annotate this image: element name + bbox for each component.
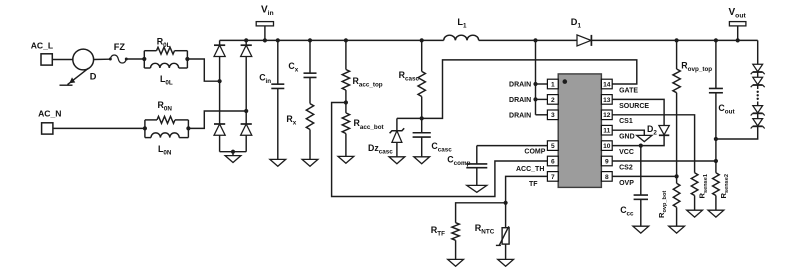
svg-text:FZ: FZ (114, 42, 126, 52)
bridge diode right bottom (245, 111, 247, 152)
svg-text:1: 1 (551, 81, 555, 88)
wire ACC tap to ACC_TH pin (332, 103, 548, 197)
pin 5 (547, 141, 558, 151)
svg-text:Ccasc: Ccasc (431, 141, 452, 154)
node Vin on rail (263, 38, 267, 42)
ground - Rovp_bot (669, 226, 685, 233)
node - LED return / Cout bottom (714, 137, 718, 141)
svg-text:5: 5 (551, 143, 555, 150)
wire - LED string drop (757, 40, 759, 64)
node Vout on rail (736, 38, 740, 42)
svg-text:Racc_top: Racc_top (353, 76, 383, 89)
node - drain tap on rail (533, 38, 537, 42)
svg-text:COMP: COMP (524, 148, 545, 155)
svg-text:DRAIN: DRAIN (509, 112, 531, 119)
ground - Rsense1 (687, 210, 703, 217)
wire SOURCE pin to D2 (612, 99, 664, 125)
svg-text:L0N: L0N (158, 144, 172, 157)
svg-text:D2: D2 (647, 124, 657, 137)
svg-text:Rovp_bot: Rovp_bot (657, 191, 668, 218)
LED D3 (753, 64, 763, 71)
node - cascode gate bias node (420, 116, 424, 120)
op-amp U1 controller IC body (558, 74, 601, 187)
svg-text:GND: GND (619, 134, 635, 141)
svg-text:RNTC: RNTC (475, 223, 495, 236)
node - LED string ellipsis dots (757, 91, 759, 93)
node - right node of R0L/L0L (185, 57, 189, 61)
svg-text:L1: L1 (457, 17, 467, 30)
svg-text:12: 12 (603, 112, 611, 119)
wire fuse to R0L/L0L node (126, 58, 144, 60)
node - left node of R0L/L0L (142, 57, 146, 61)
svg-text:Ccomp: Ccomp (447, 154, 470, 167)
svg-text:Cout: Cout (718, 103, 735, 116)
node - drain bus pin2 (533, 97, 537, 101)
node - left node of R0N/L0N (143, 126, 147, 130)
wire GND pin to ground (612, 130, 644, 135)
ground - Ccasc (414, 157, 430, 164)
node - ACC divider tap (344, 100, 348, 104)
svg-text:10: 10 (603, 143, 611, 150)
svg-text:GATE: GATE (619, 87, 638, 94)
LED D5 (753, 106, 763, 113)
ground - RNTC (498, 259, 514, 266)
wire - LED string mid (757, 102, 759, 106)
LED D4 (753, 77, 763, 84)
svg-text:Cin: Cin (259, 72, 271, 85)
svg-text:Vout: Vout (729, 7, 747, 20)
wire - cascode node to GATE pin loop (422, 60, 637, 119)
ground - GND pin (637, 135, 652, 141)
pin 7 (547, 172, 558, 182)
svg-text:CS2: CS2 (619, 164, 633, 171)
pin 3 (547, 110, 558, 120)
ground - DZcasc (389, 157, 405, 164)
svg-text:D1: D1 (571, 17, 582, 30)
node - bridge AC_L phase (218, 79, 222, 83)
svg-text:Rx: Rx (286, 114, 296, 127)
svg-text:13: 13 (603, 97, 611, 104)
pin 14 (601, 79, 612, 89)
ground - Rx (302, 159, 318, 166)
pin 13 (601, 95, 612, 105)
pin 1 (547, 79, 558, 89)
wire TF pin to RTF/RNTC (506, 176, 548, 202)
node - bridge AC_N phase (244, 109, 248, 113)
svg-text:Rovp_top: Rovp_top (681, 60, 712, 73)
svg-text:3: 3 (551, 112, 555, 119)
svg-text:14: 14 (603, 81, 611, 88)
wire - main HV rail from bridge to L1 (220, 39, 444, 41)
svg-text:AC_L: AC_L (31, 41, 53, 51)
wire R0N block to bridge AC_N node (188, 111, 246, 128)
ground - RTF (448, 259, 464, 266)
svg-text:TF: TF (529, 181, 538, 188)
svg-text:Rcasc: Rcasc (399, 70, 420, 83)
ground - Ccc (633, 226, 649, 233)
node - OVP divider tap (675, 174, 679, 178)
surge arrester D (73, 49, 94, 70)
wire D to fuse FZ (94, 58, 110, 60)
pin 8 (601, 172, 612, 182)
svg-text:ACC_TH: ACC_TH (516, 166, 544, 173)
svg-text:DRAIN: DRAIN (509, 97, 531, 104)
svg-text:2: 2 (551, 97, 555, 104)
pin 2 (547, 95, 558, 105)
ground - Ccomp (467, 185, 487, 192)
bridge diode right top (245, 40, 247, 111)
node - bridge ground tee (231, 150, 235, 154)
wire - rail from L1 to D1 (479, 39, 577, 41)
svg-text:Cx: Cx (288, 61, 298, 74)
ground - bridge (225, 156, 241, 163)
node - bridge top rail junction (244, 38, 248, 42)
wire AC_L to D (52, 59, 73, 61)
svg-text:CS1: CS1 (619, 118, 633, 125)
node - right node of R0N/L0N (186, 126, 190, 130)
svg-text:AC_N: AC_N (38, 109, 61, 119)
wire - bridge bottom rail (220, 151, 247, 153)
svg-text:9: 9 (605, 158, 609, 165)
wire OVP pin to divider (612, 175, 676, 177)
svg-text:OVP: OVP (619, 180, 634, 187)
svg-text:RTF: RTF (431, 225, 445, 238)
pin 9 (601, 156, 612, 166)
wire AC_N to R0N/L0N block (53, 127, 145, 129)
svg-text:Dzcasc: Dzcasc (368, 143, 393, 156)
wire - LED string return (716, 126, 758, 139)
svg-text:8: 8 (605, 174, 609, 181)
svg-text:Rsense1: Rsense1 (698, 174, 709, 198)
svg-text:VCC: VCC (619, 149, 634, 156)
LED D6 (753, 119, 763, 126)
svg-text:11: 11 (603, 128, 610, 135)
wire D2 cathode to VCC (612, 135, 664, 145)
node - TF net (504, 201, 508, 205)
svg-text:R0N: R0N (158, 100, 173, 113)
svg-text:Rsense2: Rsense2 (719, 174, 730, 198)
pin 6 (547, 156, 558, 166)
pin 1 marker dot (563, 79, 568, 84)
wire CS2 pin to sense node (612, 160, 716, 162)
wire CS1 pin to Rsense1 (612, 115, 694, 173)
ground - Racc_bot (338, 156, 354, 163)
svg-text:L0L: L0L (160, 74, 173, 87)
pin 12 (601, 110, 612, 120)
svg-text:7: 7 (551, 174, 555, 181)
svg-text:Vin: Vin (261, 4, 274, 17)
node - CS2 sense node (714, 159, 718, 163)
svg-text:6: 6 (551, 158, 555, 165)
svg-text:Racc_bot: Racc_bot (354, 118, 385, 131)
ground - Cin (270, 159, 286, 166)
pin 10 (601, 141, 612, 151)
bridge diode left top (219, 40, 221, 81)
ground - Rsense2 (708, 210, 724, 217)
svg-text:D: D (90, 71, 97, 81)
node - drain bus pin1 (533, 82, 537, 86)
pin 11 (601, 125, 612, 135)
wire - rail from D1 to LED string corner (591, 39, 757, 41)
wire - drain bus (535, 40, 537, 114)
svg-text:DRAIN: DRAIN (509, 82, 531, 89)
svg-text:Ccc: Ccc (620, 205, 634, 218)
svg-text:SOURCE: SOURCE (619, 103, 649, 110)
node - VCC/Ccc junction (639, 144, 643, 148)
bridge diode left bottom (219, 81, 221, 152)
wire R0L block to bridge AC_L node (187, 59, 219, 81)
